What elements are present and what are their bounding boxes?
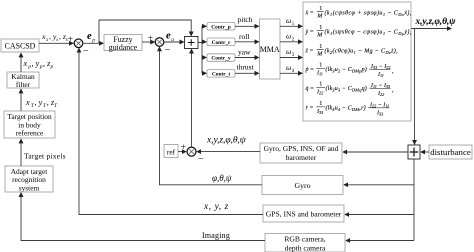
adder box (+) bbox=[185, 37, 199, 49]
wire MMA omega2 bbox=[280, 41, 302, 43]
svg-text:M: M bbox=[316, 14, 323, 20]
label roll bbox=[239, 32, 249, 41]
sign minus at junction 3 bbox=[198, 154, 204, 165]
block Adapt target recognition system bbox=[5, 166, 53, 192]
svg-text:M: M bbox=[316, 52, 323, 58]
wire junction 1 to Fuzzy guidance bbox=[83, 42, 103, 44]
wire top feedforward to adder bbox=[99, 20, 191, 36]
wire CASCSD to junction 1 bbox=[39, 42, 73, 44]
wire branch to Contr_p bbox=[202, 25, 206, 27]
wire branch to GPS INS barometer bbox=[345, 214, 414, 216]
wire Contr_t to MMA bbox=[235, 72, 259, 74]
svg-text:Contr_p: Contr_p bbox=[211, 24, 230, 30]
block CASCSD bbox=[1, 39, 39, 52]
svg-text:CASCSD: CASCSD bbox=[5, 41, 36, 50]
block RGB camera depth camera bbox=[265, 234, 345, 252]
wire branch to Contr_y bbox=[202, 57, 206, 59]
block Fuzzy guidance bbox=[104, 35, 142, 53]
block disturbance bbox=[429, 145, 472, 159]
wire MMA omega1 bbox=[280, 25, 302, 27]
sign minus at junction 1 bbox=[83, 46, 89, 57]
svg-text:x, y, z: x, y, z bbox=[203, 202, 229, 212]
wire MMA omega3 bbox=[280, 57, 302, 59]
svg-text:I22: I22 bbox=[316, 89, 323, 95]
wire Gyro to junction 2 (phi theta psi) bbox=[160, 47, 263, 185]
label phi theta psi bbox=[212, 173, 232, 183]
svg-text:ref: ref bbox=[167, 148, 176, 157]
svg-text:reference: reference bbox=[16, 129, 44, 138]
block ref bbox=[164, 145, 178, 158]
adder box 2 (disturbance +) bbox=[408, 145, 420, 159]
svg-text:Contr_r: Contr_r bbox=[212, 40, 231, 46]
label omega3 bbox=[286, 47, 295, 58]
block Gyro GPS INS OF and barometer bbox=[260, 143, 342, 163]
block MMA bbox=[260, 19, 281, 79]
svg-text:s: s bbox=[66, 37, 68, 43]
svg-text:x,y,z,φ,θ,ψ: x,y,z,φ,θ,ψ bbox=[415, 17, 457, 27]
summing junction 3 (ref) bbox=[187, 147, 196, 156]
svg-text:thrust: thrust bbox=[237, 62, 255, 71]
node label e_p bbox=[87, 31, 95, 44]
svg-text:ÿ =: ÿ = bbox=[305, 30, 314, 36]
wire adder 2 to Gyro GPS INS OF barometer bbox=[343, 151, 408, 153]
wire adder to controller branch bbox=[198, 26, 202, 73]
svg-text:e: e bbox=[87, 31, 92, 42]
wire ref to junction 3 bbox=[178, 151, 186, 153]
svg-text:Imaging: Imaging bbox=[202, 231, 230, 240]
svg-text:depth camera: depth camera bbox=[285, 243, 326, 252]
svg-text:ṙ =: ṙ = bbox=[306, 106, 314, 112]
svg-text:Target pixels: Target pixels bbox=[24, 152, 66, 161]
svg-text:MMA: MMA bbox=[260, 45, 280, 54]
svg-text:q̇ =: q̇ = bbox=[306, 86, 315, 92]
node label e_a bbox=[166, 30, 174, 43]
label x_p y_p z_p bbox=[23, 59, 54, 70]
wire Fuzzy guidance to junction 2 bbox=[142, 41, 154, 43]
svg-text:1: 1 bbox=[319, 25, 322, 31]
wire GPS INS barometer to junction 1 (x y z) bbox=[79, 48, 263, 214]
summing junction 2 (e_a) bbox=[155, 38, 164, 47]
block Contr_t bbox=[207, 70, 235, 78]
svg-text:pitch: pitch bbox=[238, 15, 253, 24]
svg-text:I33: I33 bbox=[316, 109, 323, 115]
equation zdd bbox=[305, 44, 399, 58]
wire disturbance to adder 2 bbox=[421, 151, 429, 153]
equation ydd bbox=[305, 25, 412, 39]
svg-text:φ,θ,ψ: φ,θ,ψ bbox=[212, 173, 232, 183]
svg-text:p: p bbox=[50, 64, 54, 70]
svg-text:ṗ =: ṗ = bbox=[305, 67, 315, 73]
svg-text:x: x bbox=[23, 59, 28, 68]
svg-text:−: − bbox=[198, 154, 204, 165]
wire adder 2 down distribution bbox=[413, 159, 415, 241]
wire Contr_p to MMA bbox=[235, 25, 259, 27]
label thrust bbox=[237, 62, 255, 71]
label x y z phi theta psi (output) bbox=[415, 17, 457, 27]
wire branch to Gyro bbox=[344, 184, 414, 186]
svg-text:I33: I33 bbox=[376, 111, 383, 117]
svg-text:Gyro, GPS, INS, OF and: Gyro, GPS, INS, OF and bbox=[264, 144, 339, 153]
block Target position in body reference bbox=[4, 111, 55, 138]
equation qd bbox=[306, 81, 395, 97]
label x y z bbox=[203, 202, 229, 212]
equation pd bbox=[305, 62, 395, 78]
svg-text:M: M bbox=[316, 33, 323, 39]
block Contr_y bbox=[207, 54, 235, 62]
sign plus at junction 3 bbox=[181, 143, 186, 153]
wire junction 2 to adder bbox=[164, 41, 184, 43]
wire branch to Contr_r bbox=[202, 41, 206, 43]
sign plus at junction 2 bbox=[148, 34, 153, 44]
wire RGB camera to Adapt (Imaging) bbox=[21, 193, 265, 241]
block Contr_p bbox=[207, 23, 235, 31]
wire e_p branch up bbox=[98, 20, 100, 43]
svg-text:system: system bbox=[19, 183, 40, 192]
svg-text:roll: roll bbox=[239, 32, 249, 41]
svg-text:yaw: yaw bbox=[238, 48, 251, 57]
wire Kalman to CASCSD bbox=[20, 53, 22, 72]
svg-text:Contr_y: Contr_y bbox=[211, 56, 230, 62]
label omega1 bbox=[286, 16, 295, 27]
svg-text:1: 1 bbox=[319, 81, 322, 87]
block Gyro bbox=[262, 176, 343, 195]
svg-text:1: 1 bbox=[319, 6, 322, 12]
label pitch bbox=[238, 15, 253, 24]
svg-text:p: p bbox=[91, 38, 95, 44]
svg-text:1: 1 bbox=[319, 62, 322, 68]
svg-text:I22: I22 bbox=[377, 91, 384, 97]
wire Gyro GPS box to junction 3 bbox=[197, 151, 260, 153]
svg-text:e: e bbox=[166, 30, 171, 41]
svg-text:, y: , y bbox=[32, 59, 40, 68]
label Target pixels bbox=[24, 152, 66, 161]
svg-text:GPS, INS and barometer: GPS, INS and barometer bbox=[266, 210, 342, 219]
wire branch to Contr_t bbox=[202, 72, 206, 74]
equation xdd bbox=[305, 6, 412, 20]
wire branch to RGB camera bbox=[346, 240, 414, 242]
equation rd bbox=[306, 101, 390, 117]
wire dynamics output bbox=[411, 28, 451, 30]
label x y z phi theta psi (feedback) bbox=[206, 135, 247, 146]
wire Adapt to Target position bbox=[20, 139, 22, 166]
wire Contr_y to MMA bbox=[235, 57, 259, 59]
label x_T y_T z_T bbox=[25, 98, 58, 109]
label x_s y_s z_s bbox=[41, 32, 68, 43]
svg-text:x,y,z,φ,θ,ψ: x,y,z,φ,θ,ψ bbox=[206, 135, 247, 146]
svg-text:1: 1 bbox=[319, 44, 322, 50]
wire output branch to disturbance adder bbox=[414, 29, 416, 145]
svg-text:I11: I11 bbox=[377, 72, 384, 78]
block GPS INS and barometer bbox=[263, 205, 344, 222]
label Imaging bbox=[202, 231, 230, 240]
svg-text:, y: , y bbox=[35, 98, 43, 107]
wire MMA omega4 bbox=[280, 72, 302, 74]
block Contr_r bbox=[207, 38, 235, 46]
block Kalman filter bbox=[7, 72, 39, 89]
svg-text:x: x bbox=[41, 32, 46, 41]
block dynamics equations bbox=[303, 2, 411, 121]
svg-text:guidance: guidance bbox=[109, 43, 138, 52]
label omega4 bbox=[286, 63, 295, 74]
svg-text:ẍ =: ẍ = bbox=[305, 11, 314, 17]
svg-text:−: − bbox=[83, 46, 89, 57]
wire Target position to Kalman bbox=[20, 89, 22, 111]
label yaw bbox=[238, 48, 251, 57]
svg-text:barometer: barometer bbox=[286, 153, 317, 162]
svg-text:x: x bbox=[25, 98, 30, 107]
sign minus at junction 2 bbox=[165, 45, 171, 56]
wire Contr_r to MMA bbox=[235, 41, 259, 43]
svg-text:Gyro: Gyro bbox=[294, 181, 310, 190]
svg-text:I11: I11 bbox=[316, 70, 323, 76]
svg-text:disturbance: disturbance bbox=[430, 147, 471, 157]
label omega2 bbox=[286, 32, 295, 43]
svg-text:−: − bbox=[165, 45, 171, 56]
wire junction 3 up to adder bbox=[191, 49, 193, 147]
svg-text:z̈ =: z̈ = bbox=[305, 49, 314, 55]
svg-text:filter: filter bbox=[16, 80, 31, 89]
summing junction 1 (e_p) bbox=[74, 39, 83, 48]
sign plus at junction 1 bbox=[68, 35, 73, 45]
svg-text:1: 1 bbox=[319, 101, 322, 107]
svg-text:Contr_t: Contr_t bbox=[212, 71, 230, 77]
